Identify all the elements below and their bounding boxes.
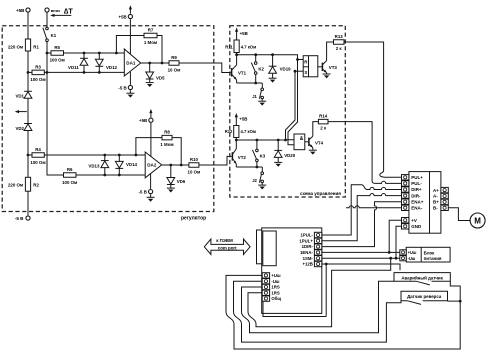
switch K1 bbox=[46, 27, 49, 30]
svg-text:A+: A+ bbox=[433, 188, 439, 193]
wire R3 row to DA1 input bbox=[44, 71, 124, 73]
svg-text:S: S bbox=[304, 70, 307, 75]
node +V tap bbox=[388, 251, 391, 254]
svg-text:-5 В: -5 В bbox=[139, 190, 147, 195]
node R8 output tap bbox=[180, 164, 183, 167]
svg-text:4.7 кОм: 4.7 кОм bbox=[241, 44, 256, 49]
svg-text:R13: R13 bbox=[335, 34, 344, 39]
terminal DA1 -5B bbox=[128, 85, 132, 89]
svg-text:вниз: вниз bbox=[51, 8, 60, 13]
svg-text:Общ: Общ bbox=[271, 296, 281, 301]
wire 1RS loop L3 bbox=[242, 281, 395, 333]
wire 1PUL+ to DIR- bbox=[321, 194, 401, 241]
node VD11 bottom bbox=[83, 71, 86, 74]
wire DA1 output bbox=[141, 62, 169, 64]
svg-text:1PUL-: 1PUL- bbox=[300, 233, 313, 238]
diode VD14 bbox=[118, 155, 120, 161]
driver power terminals bbox=[402, 218, 409, 223]
svg-text:VT1: VT1 bbox=[238, 71, 247, 76]
svg-text:10 Ом: 10 Ом bbox=[168, 67, 181, 72]
transistor VT3 bbox=[318, 66, 323, 68]
transistor VT4 bbox=[305, 141, 309, 143]
wire driver GND feed bbox=[396, 226, 402, 258]
svg-text:1 Мом: 1 Мом bbox=[144, 40, 157, 45]
wire V2 trigger to AND bbox=[288, 60, 298, 145]
svg-text:VD1: VD1 bbox=[15, 94, 24, 99]
svg-text:R5: R5 bbox=[54, 45, 60, 50]
resistor R11 bbox=[234, 40, 239, 53]
svg-text:M: M bbox=[474, 217, 481, 226]
svg-text:GND: GND bbox=[411, 224, 422, 229]
node R8 feedback tap bbox=[135, 154, 138, 157]
resistor R12 bbox=[234, 126, 239, 138]
switch emergency sensor bbox=[416, 281, 429, 285]
ground J1 bbox=[258, 100, 266, 102]
node -Uw riser tap bbox=[389, 257, 392, 260]
wire VT2 emitter rail bbox=[235, 164, 237, 167]
wire V1 S to AND bbox=[286, 71, 296, 140]
svg-text:VD11: VD11 bbox=[68, 65, 79, 70]
node reverse sensor junction bbox=[459, 300, 462, 303]
svg-text:R1: R1 bbox=[33, 44, 39, 49]
resistor R1 bbox=[25, 39, 30, 51]
wire R10 to VT2 base bbox=[199, 156, 232, 165]
node VD6 tap bbox=[169, 164, 172, 167]
svg-text:R11: R11 bbox=[225, 44, 233, 49]
svg-text:VD2: VD2 bbox=[15, 126, 24, 131]
wire R11 to node bbox=[236, 53, 238, 55]
wire emergency sensor right link bbox=[450, 281, 460, 301]
wire R1 to VD1 bbox=[27, 51, 29, 91]
wire R7 feedback right bbox=[157, 36, 162, 64]
RS trigger U1 bbox=[303, 56, 318, 77]
motor M bbox=[470, 213, 485, 228]
svg-text:-Uш: -Uш bbox=[408, 256, 416, 261]
svg-text:K2: K2 bbox=[258, 66, 264, 71]
svg-text:ENA-: ENA- bbox=[411, 206, 423, 211]
node R12 VT2 collector bbox=[235, 139, 238, 142]
wire +Uw loop L5 bbox=[226, 275, 460, 349]
wire 1RS loop L2 bbox=[248, 258, 391, 327]
svg-text:R8: R8 bbox=[164, 130, 170, 135]
wire row D lower rail bbox=[236, 139, 285, 141]
wire R5 row to DA1 input bbox=[64, 52, 125, 54]
svg-text:-5 В: -5 В bbox=[15, 216, 24, 221]
wire S input row bbox=[295, 70, 303, 72]
svg-text:100 Ом: 100 Ом bbox=[30, 77, 45, 82]
node +12B branch bbox=[325, 263, 328, 266]
wire DA1 +5B supply bbox=[129, 19, 131, 54]
switch J1 bbox=[261, 88, 264, 91]
controller board U4 bbox=[262, 228, 322, 314]
wire terminal to K1 bbox=[46, 12, 48, 27]
node R input junction bbox=[296, 58, 299, 61]
wire R4 row to DA2 input bbox=[44, 154, 145, 156]
wire -Uw loop L4 bbox=[234, 281, 402, 342]
resistor R13 bbox=[334, 40, 345, 45]
driver block U3 bbox=[409, 172, 441, 234]
terminal -5B bottom-left bbox=[26, 216, 30, 220]
svg-text:2 к: 2 к bbox=[336, 46, 343, 51]
svg-text:+Uш: +Uш bbox=[408, 250, 417, 255]
node K2 tap bbox=[254, 53, 257, 56]
svg-text:1RS: 1RS bbox=[271, 285, 279, 290]
ground J2 bbox=[258, 184, 266, 186]
ground VD19 bbox=[269, 77, 277, 79]
arrow к ПЭВМ com port bbox=[204, 239, 250, 255]
transistor VT1 bbox=[231, 68, 233, 76]
svg-text:к ПЭВМ: к ПЭВМ bbox=[216, 238, 233, 243]
power supply block bbox=[406, 247, 450, 262]
ground VT4 bbox=[309, 149, 317, 151]
wire VT2 collector bbox=[235, 140, 237, 149]
AND gate U2 bbox=[294, 134, 305, 150]
svg-text:R9: R9 bbox=[171, 55, 177, 60]
resistor R5 bbox=[47, 52, 51, 54]
wire 1ENA- +Uw rail bbox=[321, 251, 400, 253]
ground VT3 bbox=[323, 73, 331, 75]
COM connector bbox=[257, 230, 262, 264]
svg-text:DA2: DA2 bbox=[147, 163, 157, 168]
svg-text:∆Т: ∆Т bbox=[64, 6, 73, 15]
svg-text:2 к: 2 к bbox=[320, 126, 327, 131]
svg-text:-5 В: -5 В bbox=[118, 86, 126, 91]
wire +12B row bbox=[321, 264, 400, 270]
svg-text:220 Ом: 220 Ом bbox=[8, 183, 23, 188]
arrow вниз dT bbox=[52, 14, 72, 16]
svg-text:4.7 кОм: 4.7 кОм bbox=[241, 129, 256, 134]
svg-text:&: & bbox=[300, 136, 304, 142]
svg-text:1SM-: 1SM- bbox=[303, 256, 314, 261]
diode VD5 bbox=[149, 63, 151, 72]
node K3 bottom tap bbox=[256, 166, 259, 169]
svg-text:100 Ом: 100 Ом bbox=[30, 160, 45, 165]
node R11 VT1 collector bbox=[235, 53, 238, 56]
wire DA1 -5B supply bbox=[129, 72, 131, 85]
svg-text:com port: com port bbox=[218, 245, 237, 250]
diode VD2 bbox=[24, 123, 32, 125]
svg-text:R2: R2 bbox=[33, 183, 39, 188]
supply arrow +5B R11 bbox=[236, 29, 238, 40]
wire R8 feedback left bbox=[136, 138, 162, 155]
svg-text:B+: B+ bbox=[433, 200, 439, 205]
wire K1 down vertical bus bbox=[46, 42, 48, 176]
node VD14 top bbox=[118, 154, 121, 157]
diode VD1 bbox=[24, 90, 32, 92]
svg-text:R3: R3 bbox=[35, 65, 41, 70]
wire driver to motor bbox=[448, 208, 470, 221]
wire +12B branch down bbox=[325, 264, 327, 317]
driver output terminals bbox=[441, 187, 448, 192]
node VD19 tap bbox=[271, 53, 274, 56]
svg-text:ENA+: ENA+ bbox=[411, 199, 424, 204]
ground VD5 bbox=[146, 82, 154, 84]
terminal DA2 +5B bbox=[149, 118, 153, 122]
svg-text:VT2: VT2 bbox=[238, 155, 247, 160]
node rail to & gate bbox=[284, 139, 287, 142]
node VD5 tap bbox=[148, 62, 151, 65]
ground VD20 bbox=[274, 161, 282, 163]
diode VD6 bbox=[170, 165, 172, 177]
wire DA2 -5B supply bbox=[150, 174, 152, 189]
svg-text:+5В: +5В bbox=[240, 31, 248, 36]
wire VT4 collector to R14 bbox=[313, 122, 319, 137]
wire R8 feedback right bbox=[172, 138, 181, 165]
svg-text:DA1: DA1 bbox=[126, 61, 136, 66]
svg-text:R7: R7 bbox=[148, 27, 154, 32]
регулятор dashed enclosure box bbox=[2, 26, 214, 212]
resistor R10 bbox=[189, 163, 199, 168]
svg-text:R6: R6 bbox=[67, 167, 73, 172]
node junction R4 tap bbox=[27, 154, 30, 157]
wire VT1 collector bbox=[236, 55, 238, 65]
diode VD13 bbox=[104, 155, 106, 161]
svg-text:K3: K3 bbox=[260, 154, 266, 159]
svg-text:схема управления: схема управления bbox=[300, 191, 341, 196]
svg-text:R12: R12 bbox=[225, 129, 233, 134]
emergency sensor box bbox=[394, 273, 450, 282]
svg-text:Блок: Блок bbox=[424, 250, 436, 255]
wire R2 to -5B bbox=[27, 191, 29, 215]
node K1 bus R5 tap bbox=[46, 52, 49, 55]
svg-text:VD12: VD12 bbox=[106, 65, 118, 70]
svg-text:B-: B- bbox=[433, 206, 438, 211]
switch K3 bbox=[256, 140, 258, 149]
svg-text:100 Ом: 100 Ом bbox=[50, 58, 65, 63]
wire 1PUL- to DIR+ bbox=[321, 185, 401, 235]
wire VT3 emitter bbox=[326, 73, 328, 74]
resistor R2 bbox=[25, 177, 30, 191]
svg-text:R14: R14 bbox=[319, 114, 328, 119]
svg-text:PUL+: PUL+ bbox=[411, 175, 423, 180]
svg-text:1PUL+: 1PUL+ bbox=[299, 238, 313, 243]
node K3 tap bbox=[256, 139, 259, 142]
svg-text:Датчик реверса: Датчик реверса bbox=[407, 294, 442, 299]
supply arrow +5B R12 bbox=[235, 115, 237, 126]
node VD13 bottom bbox=[103, 174, 106, 177]
node K2 bottom tap bbox=[254, 82, 257, 85]
svg-text:1 Мом: 1 Мом bbox=[160, 142, 173, 147]
node S tap bbox=[294, 70, 297, 73]
svg-text:VD14: VD14 bbox=[126, 162, 138, 167]
node R7 output tap bbox=[161, 62, 164, 65]
svg-text:+5В: +5В bbox=[139, 118, 147, 123]
svg-text:VT3: VT3 bbox=[329, 65, 338, 70]
transistor VT2 bbox=[231, 152, 233, 160]
resistor R14 bbox=[318, 119, 328, 124]
svg-text:A-: A- bbox=[433, 194, 438, 199]
ground DA2 negative rail bbox=[147, 196, 155, 198]
svg-text:DIR-: DIR- bbox=[411, 193, 421, 198]
svg-text:+Uш: +Uш bbox=[271, 273, 281, 278]
ground VD6 bbox=[167, 187, 175, 189]
wire R14 to driver PUL- bbox=[328, 122, 402, 184]
wire emitter to J1 bbox=[261, 83, 263, 88]
svg-text:1RS: 1RS bbox=[271, 290, 279, 295]
wire Общ run L1 bbox=[263, 301, 326, 316]
resistor R3 bbox=[28, 71, 32, 73]
node VD12 bottom bbox=[98, 71, 101, 74]
arrow node midpoint bbox=[16, 111, 27, 113]
схема управления dashed enclosure box bbox=[230, 26, 345, 197]
wire +5B down to R1 bbox=[27, 12, 29, 39]
svg-text:питания: питания bbox=[424, 256, 442, 261]
svg-text:+V: +V bbox=[411, 218, 417, 223]
terminal +5B top-left bbox=[26, 8, 30, 12]
svg-text:регулятор: регулятор bbox=[181, 216, 206, 222]
wire VT4 emitter bbox=[312, 148, 314, 151]
resistor R9 bbox=[169, 61, 179, 66]
wire R9 to VT1 base bbox=[179, 63, 231, 73]
diode VD11 bbox=[83, 53, 85, 58]
wire driver +V feed bbox=[389, 220, 401, 252]
terminal DA1 +5B bbox=[128, 14, 132, 18]
node R7 feedback tap bbox=[115, 52, 118, 55]
svg-text:+5В: +5В bbox=[239, 117, 247, 122]
ground DA1 negative rail bbox=[126, 92, 134, 94]
wire R13 to driver PUL+ bbox=[344, 42, 402, 177]
node K1 bus R3 tap bbox=[46, 71, 49, 74]
controller right terminals bbox=[314, 232, 321, 237]
node GND tap bbox=[395, 257, 398, 260]
reverse sensor box bbox=[401, 291, 448, 301]
resistor R7 bbox=[144, 33, 157, 38]
controller bottom terminals bbox=[262, 273, 269, 278]
switch reverse sensor bbox=[408, 301, 421, 305]
diode VD19 bbox=[272, 55, 274, 66]
wire DA2 output bbox=[162, 164, 189, 166]
svg-text:1DIR-: 1DIR- bbox=[302, 244, 314, 249]
wire R input row bbox=[298, 59, 304, 61]
svg-text:PUL-: PUL- bbox=[411, 181, 422, 186]
op-amp DA2 bbox=[145, 152, 162, 178]
node VD14 bottom bbox=[118, 174, 121, 177]
wire DA2 +5B supply bbox=[150, 123, 152, 157]
node junction R3 tap bbox=[27, 71, 30, 74]
svg-text:VD13: VD13 bbox=[88, 164, 100, 169]
svg-text:+5В: +5В bbox=[119, 14, 127, 19]
svg-text:VD20: VD20 bbox=[284, 153, 296, 158]
op-amp DA1 bbox=[124, 49, 140, 76]
wire VT3 collector to R13 bbox=[327, 42, 334, 61]
wire R6 row to DA2 input bbox=[76, 174, 145, 176]
svg-text:100 Ом: 100 Ом bbox=[62, 180, 77, 185]
wire VT1 emitter rail bbox=[236, 80, 238, 83]
diode VD20 bbox=[277, 140, 279, 150]
svg-text:J1: J1 bbox=[252, 94, 257, 99]
switch J2 bbox=[261, 172, 264, 175]
svg-text:R10: R10 bbox=[190, 157, 199, 162]
svg-text:1ENA-: 1ENA- bbox=[300, 250, 313, 255]
svg-text:DIR+: DIR+ bbox=[411, 187, 422, 192]
svg-text:VD5: VD5 bbox=[156, 75, 165, 80]
wire K1 bus corner to R6 bbox=[47, 174, 64, 176]
svg-text:R4: R4 bbox=[35, 147, 41, 152]
resistor R6 bbox=[64, 173, 77, 178]
svg-text:220 Ом: 220 Ом bbox=[8, 44, 23, 49]
wire emitter to J2 bbox=[261, 167, 263, 172]
svg-text:10 Ом: 10 Ом bbox=[188, 169, 201, 174]
svg-text:+5В: +5В bbox=[16, 8, 25, 13]
svg-text:J2: J2 bbox=[252, 178, 257, 183]
svg-text:+12В: +12В bbox=[302, 262, 312, 267]
terminal DA2 -5B bbox=[149, 190, 153, 194]
wire ENA- row bbox=[346, 206, 402, 208]
svg-text:K1: K1 bbox=[51, 33, 57, 38]
node VD20 tap bbox=[277, 139, 280, 142]
svg-text:VD19: VD19 bbox=[280, 67, 292, 72]
power supply terminals bbox=[400, 250, 406, 255]
resistor R8 bbox=[162, 135, 172, 140]
switch K2 bbox=[255, 55, 257, 62]
wire 1DIR- to ENA+ bbox=[321, 202, 401, 247]
node VD11 top bbox=[83, 52, 86, 55]
resistor R4 bbox=[28, 154, 32, 156]
svg-text:VD6: VD6 bbox=[177, 179, 186, 184]
svg-text:-Uш: -Uш bbox=[271, 279, 280, 284]
svg-text:Аварийный датчик: Аварийный датчик bbox=[401, 275, 443, 280]
terminal вниз dT bbox=[45, 8, 49, 12]
diode VD12 bbox=[98, 53, 100, 59]
wire row A top rail bbox=[237, 55, 298, 60]
driver input terminals bbox=[402, 175, 409, 180]
wire R12 to node bbox=[235, 138, 237, 141]
node VD12 top bbox=[98, 52, 101, 55]
wire R7 feedback left bbox=[116, 36, 144, 54]
svg-text:VT4: VT4 bbox=[315, 140, 324, 145]
node VD13 top bbox=[103, 154, 106, 157]
wire 1SM- -Uw rail bbox=[321, 257, 400, 259]
